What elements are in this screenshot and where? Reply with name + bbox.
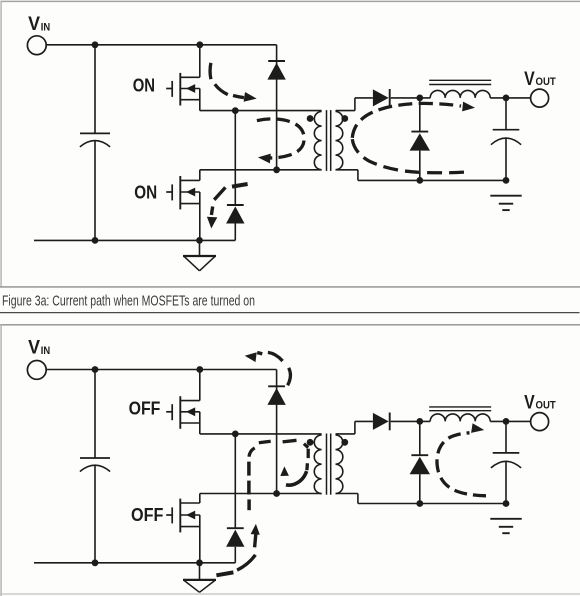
svg-text:ON: ON — [133, 75, 155, 96]
svg-text:OUT: OUT — [536, 76, 557, 88]
svg-text:V: V — [524, 68, 535, 90]
svg-text:IN: IN — [41, 22, 50, 34]
svg-text:IN: IN — [41, 345, 50, 357]
svg-text:V: V — [524, 391, 535, 413]
svg-text:V: V — [28, 337, 40, 359]
svg-text:Figure 3a: Current path when M: Figure 3a: Current path when MOSFETs are… — [2, 294, 255, 310]
svg-text:OFF: OFF — [131, 504, 163, 525]
svg-text:OFF: OFF — [129, 398, 161, 419]
svg-text:OUT: OUT — [536, 400, 557, 412]
svg-text:V: V — [28, 13, 40, 35]
svg-text:ON: ON — [134, 181, 157, 202]
